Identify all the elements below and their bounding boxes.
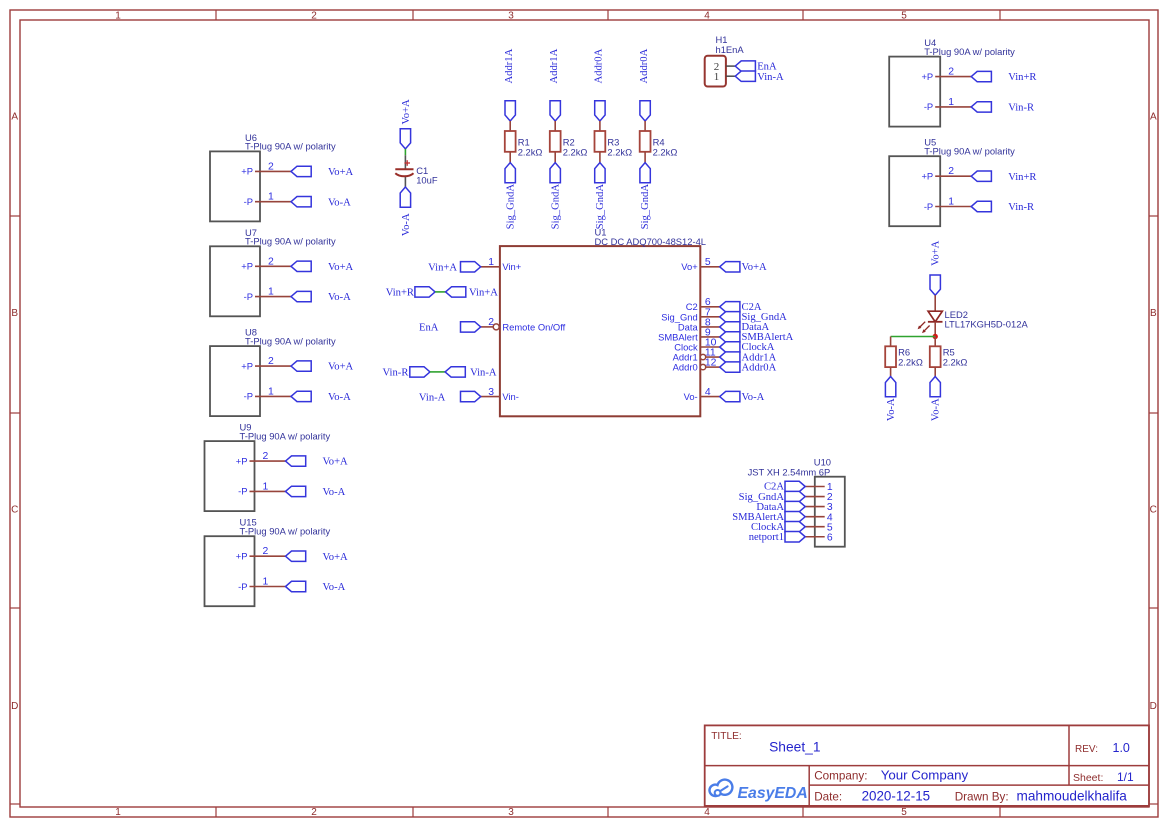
svg-text:-P: -P [924,101,933,112]
svg-text:mahmoudelkhalifa: mahmoudelkhalifa [1017,789,1128,804]
svg-text:Addr0A: Addr0A [594,48,605,83]
wire [404,149,406,155]
resistor R3 [595,131,633,157]
net flag ClockA [751,522,805,533]
svg-text:TITLE:: TITLE: [711,731,742,742]
net flag Vo+A [930,240,942,295]
wire [644,121,646,131]
svg-text:T-Plug 90A w/ polarity: T-Plug 90A w/ polarity [240,525,331,536]
svg-text:Vin-A: Vin-A [419,392,446,403]
pin 10 Clock [674,337,719,352]
net flag Vin-A [445,367,497,379]
svg-text:2: 2 [311,11,317,22]
net flag Vin+R [386,287,435,299]
net flag Sig_GndA [505,163,516,230]
junction [933,334,938,339]
EasyEDA logo [709,780,807,803]
svg-text:-P: -P [238,486,247,497]
wire [599,152,601,163]
net flag Vo-A [291,391,351,403]
net flag Vo-A [885,377,897,422]
net flag Vo-A [930,377,942,422]
connector U4 [889,37,1015,127]
svg-text:6: 6 [827,532,833,543]
svg-text:Vo-A: Vo-A [328,292,351,303]
title block [705,725,1149,806]
svg-text:5: 5 [901,11,907,22]
svg-text:4: 4 [704,11,710,22]
wire [890,337,892,347]
svg-text:Vo-: Vo- [684,391,698,402]
net flag ClockA [720,342,775,353]
svg-text:Sig_GndA: Sig_GndA [595,184,606,230]
wire [250,586,286,588]
net flag Vin-R [971,102,1035,114]
resistor R6 [885,346,923,367]
svg-text:Vo+A: Vo+A [328,167,354,178]
svg-text:Vin+A: Vin+A [428,263,457,274]
svg-text:A: A [1150,112,1157,123]
svg-text:2.2kΩ: 2.2kΩ [607,146,632,157]
svg-text:-P: -P [238,581,247,592]
svg-text:LTL17KGH5D-012A: LTL17KGH5D-012A [945,319,1029,330]
svg-text:DC DC ADQ700-48S12-4L: DC DC ADQ700-48S12-4L [595,236,707,247]
svg-text:h1EnA: h1EnA [716,44,745,55]
svg-text:Sheet_1: Sheet_1 [769,739,820,754]
net flag DataA [756,501,805,512]
svg-text:Drawn By:: Drawn By: [955,790,1009,803]
net flag Vin+A [428,262,481,274]
svg-text:3: 3 [508,11,514,22]
svg-text:D: D [11,701,18,712]
svg-text:T-Plug 90A w/ polarity: T-Plug 90A w/ polarity [245,335,336,346]
svg-text:Vin-A: Vin-A [470,368,497,379]
svg-text:C: C [11,505,18,516]
wire [726,75,735,77]
svg-text:1/1: 1/1 [1117,770,1134,784]
svg-text:2.2kΩ: 2.2kΩ [943,356,968,367]
connector U5 [889,137,1015,227]
svg-text:Vo-A: Vo-A [886,398,897,421]
wire [509,121,511,131]
svg-text:2: 2 [311,807,317,818]
svg-text:EasyEDA: EasyEDA [738,785,808,802]
svg-text:Sig_GndA: Sig_GndA [640,184,651,230]
net flag Sig_GndA [720,312,787,323]
wire [435,291,446,293]
svg-text:Vo+A: Vo+A [401,99,412,125]
pin 11 Addr1 [673,347,720,362]
svg-text:2.2kΩ: 2.2kΩ [653,146,678,157]
net flag SMBAlertA [732,511,805,522]
resistor R5 [930,346,968,367]
wire [255,265,291,267]
net flag Vo-A [286,581,346,593]
svg-text:netport1: netport1 [749,532,784,543]
net flag Vin-R [383,367,430,379]
svg-text:Company:: Company: [814,769,867,782]
pin 6 [805,532,833,543]
svg-text:Vin-R: Vin-R [1008,202,1035,213]
wire [890,367,892,376]
net flag Addr1A [720,352,777,363]
net flag Sig_GndA [550,163,561,230]
pin 5 Vo+ [681,257,719,272]
pin 1 Vin+ [481,257,522,272]
resistor R4 [640,131,678,157]
pin 7 Sig_Gnd [661,307,719,322]
LED LED2 [918,309,1029,333]
pin 2 [805,492,833,503]
connector U10 [748,457,845,547]
wire [934,322,936,337]
wire [934,295,936,311]
svg-text:C: C [1150,505,1157,516]
wire [935,76,971,78]
net flag Vo+A [291,261,354,273]
net flag Vin-R [971,201,1035,213]
wire [250,555,286,557]
net flag SMBAlertA [720,332,794,343]
svg-text:T-Plug 90A w/ polarity: T-Plug 90A w/ polarity [245,141,336,152]
svg-text:1.0: 1.0 [1113,741,1130,755]
net flag Vin-A [419,391,481,403]
net flag Vin-A [735,71,784,83]
svg-text:+P: +P [921,71,933,82]
net flag Vo+A [286,551,349,563]
svg-text:Vo+: Vo+ [681,261,698,272]
svg-text:1: 1 [115,11,121,22]
net flag EnA [419,322,481,334]
wire [891,336,936,338]
net flag Vo-A [400,187,412,236]
resistor R1 [505,131,543,157]
wire [934,367,936,376]
net flag Vo-A [291,291,351,303]
svg-text:Addr1A: Addr1A [504,48,515,83]
svg-text:2020-12-15: 2020-12-15 [862,789,931,804]
svg-text:A: A [11,112,18,123]
wire [250,460,286,462]
net flag Vin+R [971,71,1037,83]
net flag C2A [720,302,762,313]
net flag Vo+A [286,456,349,468]
svg-text:B: B [1150,308,1157,319]
svg-text:Vin-R: Vin-R [383,368,410,379]
svg-text:4: 4 [704,807,710,818]
svg-text:Addr0A: Addr0A [742,362,777,373]
svg-text:Sig_GndA: Sig_GndA [505,184,516,230]
wire [644,152,646,163]
connector U8 [210,327,336,417]
wire [934,337,936,347]
wire [255,201,291,203]
wire [255,296,291,298]
svg-text:Vin-: Vin- [502,391,519,402]
svg-text:T-Plug 90A w/ polarity: T-Plug 90A w/ polarity [240,430,331,441]
wire [554,152,556,163]
svg-text:1: 1 [115,807,121,818]
svg-text:+P: +P [236,551,248,562]
svg-text:Vin+A: Vin+A [469,288,498,299]
net flag Vo-A [286,486,346,498]
net flag Vo+A [291,166,354,178]
pin 6 C2 [686,297,720,312]
net flag Addr0A [639,48,651,121]
svg-text:Vin+R: Vin+R [1008,172,1037,183]
pin 9 SMBAlert [658,327,720,342]
wire [935,206,971,208]
svg-text:Vo+A: Vo+A [328,362,354,373]
net flag Addr1A [549,48,561,121]
svg-text:D: D [1150,701,1157,712]
pin 12 Addr0 [673,358,720,373]
connector U7 [210,227,336,316]
svg-text:Vo-A: Vo-A [931,398,942,421]
wire [250,490,286,492]
svg-text:Vo-A: Vo-A [401,213,412,236]
wire [935,175,971,177]
svg-text:B: B [11,308,18,319]
svg-text:Addr0A: Addr0A [639,48,650,83]
pin 1 [805,482,833,493]
svg-text:Vo-A: Vo-A [328,197,351,208]
net flag Vin+R [971,171,1037,183]
net flag Sig_GndA [739,491,806,502]
svg-text:-P: -P [244,291,253,302]
net flag Vin+A [446,287,499,299]
svg-text:+P: +P [241,166,253,177]
svg-text:T-Plug 90A w/ polarity: T-Plug 90A w/ polarity [245,236,336,247]
pin 8 Data [678,317,720,332]
svg-text:T-Plug 90A w/ polarity: T-Plug 90A w/ polarity [924,145,1015,156]
wire [255,395,291,397]
wire [554,121,556,131]
svg-text:Remote On/Off: Remote On/Off [502,321,565,332]
svg-text:5: 5 [901,807,907,818]
svg-text:Vin-A: Vin-A [757,72,784,83]
pin 5 [805,522,833,533]
svg-text:Addr0: Addr0 [673,362,698,373]
svg-text:Vo-A: Vo-A [328,392,351,403]
wire [255,170,291,172]
svg-text:REV:: REV: [1075,744,1098,755]
net flag Addr1A [504,48,516,121]
svg-text:Vo+A: Vo+A [742,262,768,273]
svg-text:-P: -P [244,391,253,402]
svg-text:Sheet:: Sheet: [1073,772,1103,784]
wire [599,121,601,131]
svg-text:+P: +P [236,455,248,466]
svg-text:+P: +P [241,261,253,272]
svg-text:Vo-A: Vo-A [742,392,765,403]
svg-text:+P: +P [241,360,253,371]
wire [935,106,971,108]
net flag Addr0A [594,48,606,121]
pin 2 Remote On/Off [481,317,566,332]
capacitor C1 [395,155,438,187]
net flag Sig_GndA [595,163,606,230]
svg-text:2.2kΩ: 2.2kΩ [898,356,923,367]
net flag netport1 [749,532,806,543]
net flag Addr0A [720,362,777,373]
svg-text:Vin+: Vin+ [502,261,521,272]
pin 4 Vo- [684,387,720,402]
svg-text:Vo+A: Vo+A [323,552,349,563]
wire [255,365,291,367]
net flag Sig_GndA [640,163,651,230]
net flag Vo+A [720,262,767,273]
connector U15 [205,517,331,607]
pin 3 Vin- [481,387,519,402]
svg-text:2.2kΩ: 2.2kΩ [518,146,543,157]
svg-text:2.2kΩ: 2.2kΩ [563,146,588,157]
pin 3 [805,502,833,513]
pin 4 [805,512,833,523]
svg-text:Vo-A: Vo-A [323,487,346,498]
svg-text:Vin+R: Vin+R [1008,72,1037,83]
svg-text:Date:: Date: [814,790,842,803]
svg-text:Addr1A: Addr1A [549,48,560,83]
connector U9 [205,422,331,512]
connector H1 [705,34,745,87]
net flag Vo-A [291,197,351,209]
net flag EnA [735,61,777,73]
svg-text:Your Company: Your Company [881,768,969,783]
net flag DataA [720,322,770,333]
svg-text:10uF: 10uF [416,175,438,186]
op-amp U1 [500,227,706,417]
svg-text:1: 1 [714,71,720,83]
net flag Vo+A [291,361,354,373]
net flag Vo-A [720,391,765,402]
wire [430,371,445,373]
wire [726,65,735,67]
wire [509,152,511,163]
svg-text:JST XH 2.54mm 6P: JST XH 2.54mm 6P [748,466,831,477]
svg-text:Vo-A: Vo-A [323,582,346,593]
svg-text:Vin-R: Vin-R [1008,103,1035,114]
svg-text:-P: -P [244,196,253,207]
svg-text:-P: -P [924,201,933,212]
svg-text:Vin+R: Vin+R [386,288,415,299]
svg-text:Vo+A: Vo+A [323,457,349,468]
svg-text:EnA: EnA [419,323,439,334]
resistor R2 [550,131,588,157]
svg-text:3: 3 [508,807,514,818]
svg-text:Vo+A: Vo+A [328,262,354,273]
connector U6 [210,132,336,222]
svg-text:+P: +P [921,171,933,182]
svg-text:Vo+A: Vo+A [931,240,942,266]
net flag Vo+A [400,99,412,149]
net flag C2A [764,481,805,492]
svg-text:Sig_GndA: Sig_GndA [550,184,561,230]
svg-text:T-Plug 90A w/ polarity: T-Plug 90A w/ polarity [924,46,1015,57]
